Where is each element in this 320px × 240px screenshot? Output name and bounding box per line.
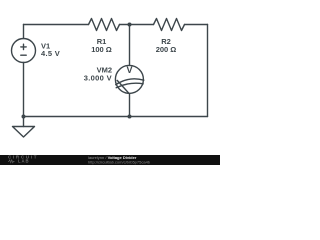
svg-text:4.5 V: 4.5 V (41, 49, 60, 58)
svg-text:http://circuitlab.com/c/brb5p7: http://circuitlab.com/c/brb5p75ca4b (88, 159, 151, 164)
svg-text:V: V (126, 65, 132, 75)
wire V1 top (23, 25, 25, 39)
node junction dot R1-R2-VM2 (128, 23, 132, 27)
wire top rail left segment (24, 24, 89, 26)
ground (13, 127, 35, 138)
voltage source V1 (12, 39, 36, 63)
VM2 needle (117, 80, 129, 93)
watermark credit line (88, 155, 151, 165)
resistor R1 (89, 19, 120, 31)
wire between R1 and R2 (120, 24, 154, 26)
V1 minus sign (21, 54, 26, 56)
svg-text:200 Ω: 200 Ω (156, 45, 177, 54)
CircuitLab logo (8, 155, 38, 164)
resistor R2 (154, 19, 185, 31)
voltmeter VM2 (115, 65, 143, 93)
V1 plus sign (21, 44, 26, 49)
wire top rail right segment (185, 24, 208, 26)
wire VM2 top (129, 25, 131, 66)
wire V1 bottom (23, 63, 25, 117)
svg-text:100 Ω: 100 Ω (91, 45, 112, 54)
node junction dot bottom VM2 (128, 115, 132, 119)
wire right vertical (207, 25, 209, 117)
svg-text:3.000 V: 3.000 V (84, 74, 112, 83)
node junction dot bottom left (ground) (22, 115, 26, 119)
watermark bar (0, 155, 220, 165)
wire bottom rail (24, 116, 208, 118)
svg-text:LAB: LAB (18, 159, 29, 164)
wire VM2 bottom (129, 93, 131, 116)
wire ground stub (23, 117, 25, 127)
VM2 meter scale arcs (116, 79, 144, 88)
